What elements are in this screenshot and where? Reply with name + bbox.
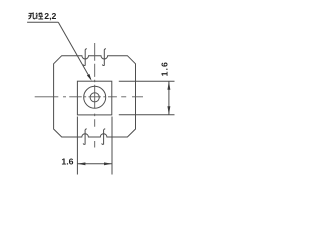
right dim: top extension line (119, 80, 175, 82)
right dim arrow down (167, 106, 170, 115)
label 徑 glyph (36, 13, 43, 19)
label 孔 glyph (28, 12, 35, 19)
inner hole circle (90, 93, 99, 102)
right dim line (168, 81, 170, 115)
lead stub top-right (102, 49, 106, 66)
svg-text:2,2: 2,2 (44, 11, 56, 21)
bottom dim: right extension line (111, 117, 113, 175)
bottom dim line (77, 163, 112, 165)
body outline with lead notches (54, 56, 136, 137)
right dim arrow up (167, 81, 170, 90)
square boss (77, 81, 111, 115)
outer circle (84, 86, 106, 108)
svg-text:1.6: 1.6 (159, 61, 169, 76)
leader arrowhead (87, 74, 92, 81)
bottom dim arrow left (77, 162, 85, 165)
horizontal centerline (35, 96, 143, 98)
right dim: bottom extension line (119, 114, 175, 116)
bottom dim: left extension line (76, 117, 78, 175)
label underline (27, 21, 58, 23)
lead stub bottom-left (83, 129, 87, 145)
leader line (58, 22, 90, 79)
svg-text:1.6: 1.6 (61, 157, 73, 167)
lead stub top-left (83, 49, 87, 66)
lead stub bottom-right (102, 129, 106, 145)
bottom dim arrow right (104, 162, 112, 165)
vertical centerline (94, 43, 96, 148)
